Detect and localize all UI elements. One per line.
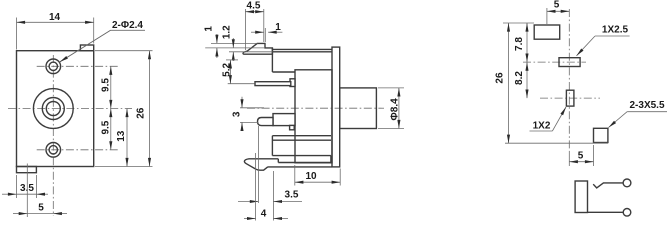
dim 3.5 line [2, 193, 17, 195]
label 2-3X5.5 leader [627, 111, 667, 113]
flange plate [332, 47, 340, 167]
dim 1.2 line [232, 38, 234, 48]
top-right tab [80, 45, 93, 51]
label 2-phi2.4 leader [60, 30, 146, 62]
dim 14 ext lines [16, 18, 18, 50]
dim 1 (left) line [216, 34, 218, 43]
bottom-left step [17, 167, 37, 173]
dim 4 ext line [255, 153, 257, 221]
svg-text:14: 14 [49, 12, 61, 23]
axis centerline [247, 107, 384, 109]
svg-text:26: 26 [494, 72, 505, 84]
svg-text:4.5: 4.5 [247, 1, 261, 12]
svg-text:1: 1 [275, 22, 281, 33]
svg-text:26: 26 [136, 107, 147, 119]
centerline vertical [52, 55, 54, 216]
cavity top line [272, 71, 295, 73]
ground terminal circle [623, 209, 631, 217]
dim 13 line [126, 109, 128, 167]
dim 5 bottom exts [593, 145, 595, 166]
svg-text:5.2: 5.2 [221, 63, 232, 77]
tip terminal circle [623, 179, 631, 187]
dim 5 ext line [26, 164, 28, 218]
label 1X2.5 leader [595, 35, 630, 37]
top beak (snap) [243, 43, 272, 54]
dim 5 top ext [546, 8, 548, 24]
dim 3.5 ext lines [16, 175, 18, 198]
pad 2-3X5.5 [594, 128, 608, 142]
dim 1 (top right) ext line [264, 28, 266, 42]
dim 3.5 ext line [257, 126, 259, 203]
ground wire [588, 211, 624, 213]
svg-text:9.5: 9.5 [101, 78, 112, 92]
front wall lower segment [271, 136, 273, 156]
svg-text:3: 3 [231, 111, 242, 117]
dim 5 top line [547, 10, 569, 12]
hole bottom inner [49, 146, 57, 154]
svg-text:8.2: 8.2 [514, 71, 525, 85]
svg-text:9.5: 9.5 [101, 120, 112, 134]
body rectangle [295, 70, 332, 163]
svg-text:2-Φ2.4: 2-Φ2.4 [112, 20, 143, 31]
housing top double line [272, 48, 332, 50]
svg-text:3.5: 3.5 [285, 190, 299, 201]
dim 5.2 line [229, 60, 231, 84]
dim phi8.4 line [398, 88, 400, 129]
pad 1X2 [566, 90, 574, 106]
middle pin tip [258, 118, 274, 126]
dim 3.5 line [238, 201, 258, 203]
svg-text:1X2.5: 1X2.5 [602, 25, 629, 36]
dim 10 line [295, 181, 340, 183]
jack body rect [575, 181, 587, 213]
dim 1 (left) ext lines [211, 42, 257, 44]
top pin tab [290, 79, 295, 87]
bottom inner line [272, 155, 331, 157]
svg-text:1.2: 1.2 [221, 25, 232, 39]
hole top inner [49, 62, 57, 70]
centerline horizontal bottom hole [37, 149, 120, 151]
right refs: top edge / bottom edge extensions [95, 50, 153, 52]
ref line top [503, 22, 534, 24]
switch contact tick and wire [593, 183, 623, 188]
dim 3 ref ticks [240, 107, 264, 109]
housing bottom [268, 166, 332, 168]
horizontal centerline pad 1X2.5 [523, 61, 586, 63]
svg-text:4: 4 [261, 208, 267, 219]
body outline [17, 51, 94, 167]
dim 5 line [13, 213, 27, 215]
svg-text:Φ8.4: Φ8.4 [390, 98, 401, 121]
dim 4 line [244, 218, 256, 220]
big circle middle [42, 98, 64, 120]
interior shelf lines [272, 139, 331, 141]
svg-text:1X2: 1X2 [533, 121, 551, 132]
pad 1X2.5 [559, 58, 580, 67]
bottom hook (snap) [244, 159, 278, 170]
dim 9.5 / 9.5 line [110, 66, 112, 108]
dim 14 line [17, 21, 94, 23]
dim 3 line [241, 97, 243, 108]
front wall upper segment [271, 48, 273, 72]
svg-text:7.8: 7.8 [514, 37, 525, 51]
dim 10 ext lines [294, 165, 296, 186]
dim 1.2 ext line [229, 51, 272, 53]
dim 8.2 line [526, 62, 528, 98]
dim 1 (top right) line [251, 31, 264, 33]
svg-text:1: 1 [204, 26, 215, 32]
dim 3.5 right ext [272, 171, 274, 221]
dim 26 line [149, 51, 151, 167]
dim 4.5 ext lines [244, 9, 246, 50]
dim 4.5 line [245, 11, 263, 13]
hole top outer [46, 59, 61, 74]
label 1X2 leader [530, 130, 553, 132]
centerline horizontal big hole [8, 108, 132, 110]
svg-text:2-3X5.5: 2-3X5.5 [629, 100, 664, 111]
pad top (5x...) [534, 25, 560, 39]
vertical centerline [568, 9, 570, 152]
dim 7.8 line [526, 23, 528, 62]
dim 5 bottom line [569, 161, 593, 163]
big circle inner [46, 102, 60, 116]
svg-text:10: 10 [305, 171, 317, 182]
big circle outer [33, 89, 73, 129]
dim 26 line [508, 23, 510, 143]
middle pin step [290, 125, 295, 129]
ref line bottom [505, 142, 608, 144]
middle pin wide part [273, 114, 295, 126]
dim phi8.4 ext lines [378, 87, 404, 89]
svg-text:5: 5 [554, 0, 560, 11]
svg-text:5: 5 [578, 151, 584, 162]
hole bottom outer [46, 143, 61, 158]
barrel [340, 88, 377, 129]
horizontal centerline pad 1X2 [540, 97, 600, 99]
top pin [255, 82, 291, 86]
svg-text:5: 5 [38, 202, 44, 213]
centerline horizontal top hole [37, 65, 120, 67]
svg-text:13: 13 [116, 130, 127, 142]
dim 5.2 ext line [228, 83, 255, 85]
